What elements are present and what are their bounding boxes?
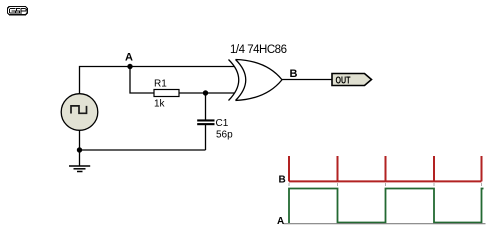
resistor R1 [154, 90, 179, 97]
svg-text:A: A [125, 52, 133, 64]
wire: node A down to R1 row [130, 67, 154, 94]
xor gate U1 input arc [229, 60, 239, 101]
wire: junction down to C1 top [205, 93, 207, 120]
svg-text:A: A [277, 216, 284, 227]
svg-text:C1: C1 [216, 118, 229, 129]
svg-text:B: B [279, 175, 286, 186]
wire: source top riser and top horizontal to gate input A [80, 67, 235, 95]
wire: source bottom to ground stub [79, 131, 81, 167]
wire: bottom rail [80, 149, 206, 151]
esp logo [8, 7, 28, 15]
waveform tick marks [289, 183, 482, 186]
node A junction dot [127, 64, 132, 69]
capacitor C1 [197, 119, 214, 121]
svg-text:1/4 74HC86: 1/4 74HC86 [230, 44, 287, 56]
xor gate U1 body [236, 60, 283, 101]
svg-text:OUT: OUT [336, 74, 351, 86]
OUT flag [332, 74, 372, 86]
waveform B trace (red pulses) [289, 156, 482, 181]
ground [69, 166, 90, 172]
wire: C1 bottom down to bottom rail [205, 125, 207, 150]
svg-text:56p: 56p [216, 130, 233, 141]
waveform A trace (green square wave) [289, 189, 484, 224]
svg-text:R1: R1 [154, 79, 167, 90]
waveform axis [284, 223, 486, 225]
junction dot R1/C1 [203, 90, 208, 95]
svg-text:1k: 1k [154, 99, 166, 110]
square wave source V1 [61, 94, 98, 131]
junction dot source bottom [77, 147, 82, 152]
wire: R1 to gate lower input [179, 92, 235, 94]
svg-text:B: B [290, 68, 298, 80]
wire: gate output to OUT flag [282, 79, 333, 81]
